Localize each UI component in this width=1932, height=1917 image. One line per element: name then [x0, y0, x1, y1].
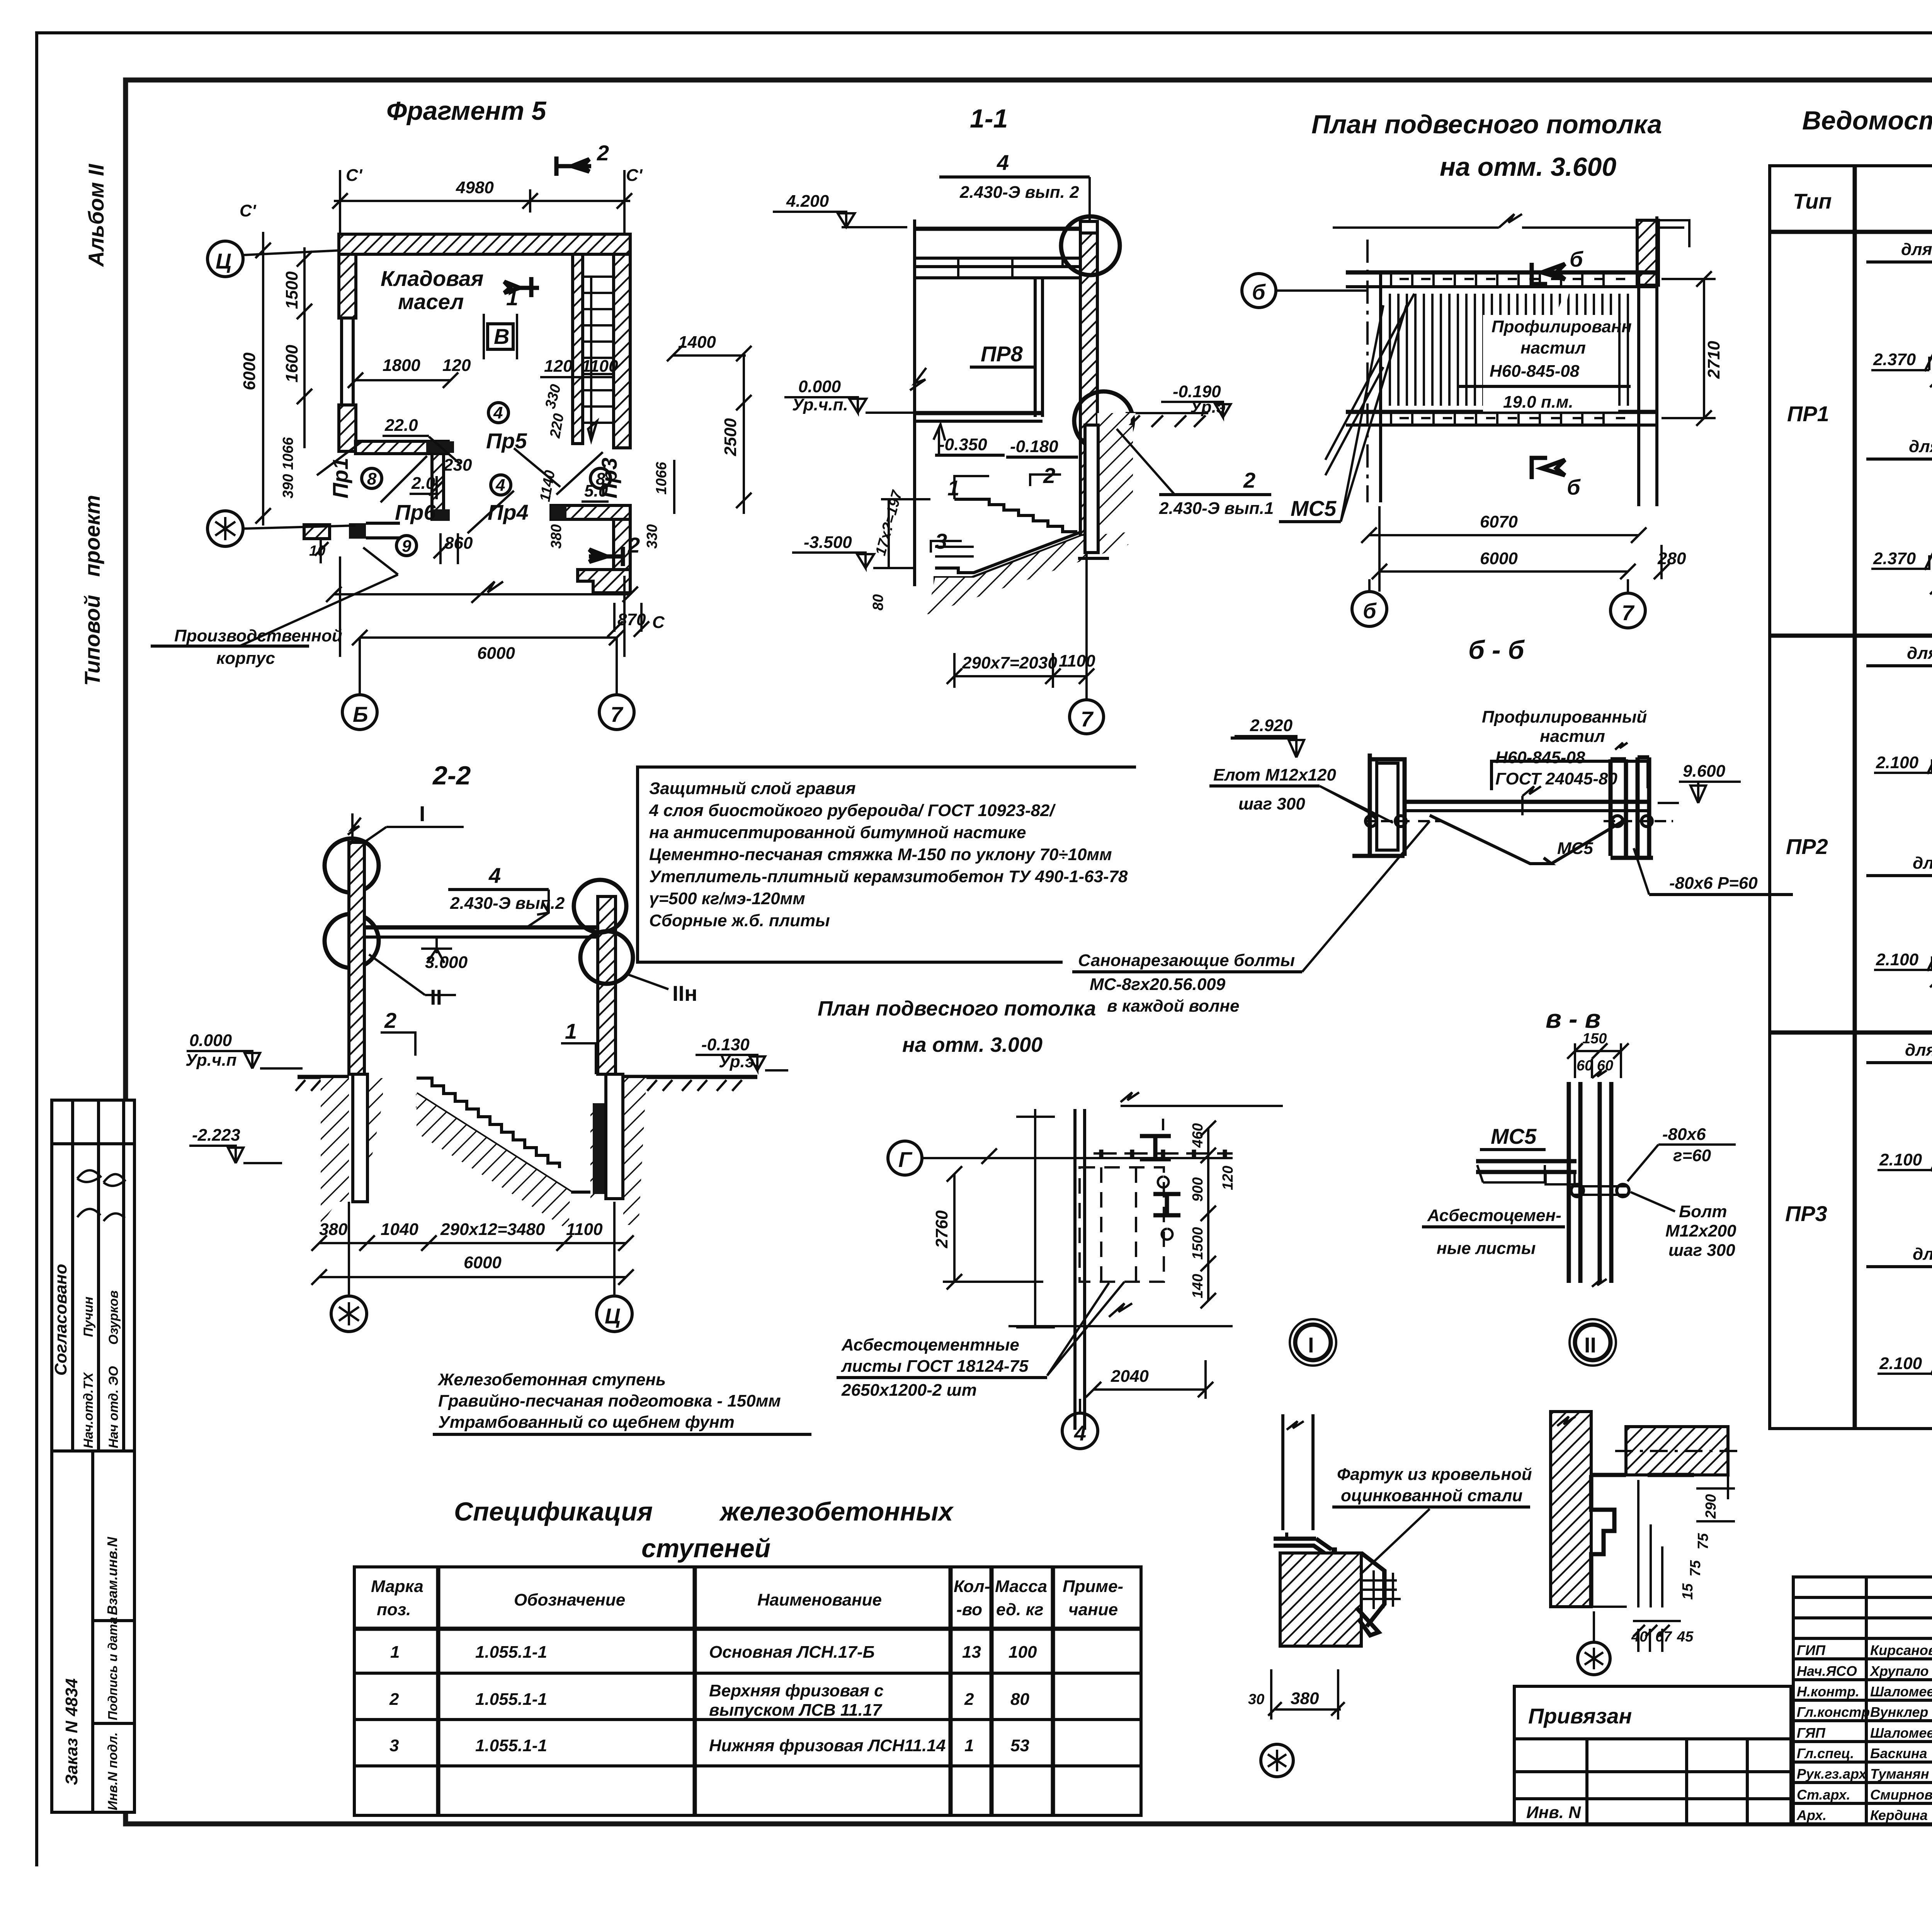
svg-text:80: 80 — [870, 594, 886, 611]
svg-text:7: 7 — [1622, 600, 1635, 625]
svg-text:C': C' — [626, 166, 643, 185]
svg-text:1.055.1-1: 1.055.1-1 — [475, 1643, 547, 1662]
svg-text:-80х6 Р=60: -80х6 Р=60 — [1669, 874, 1758, 893]
svg-text:120: 120 — [442, 356, 471, 375]
svg-text:1600: 1600 — [282, 345, 301, 383]
svg-text:МС5: МС5 — [1291, 496, 1337, 520]
svg-text:230: 230 — [443, 456, 472, 475]
svg-text:9.600: 9.600 — [1683, 762, 1726, 781]
svg-text:поз.: поз. — [377, 1600, 411, 1619]
svg-text:2: 2 — [384, 1008, 396, 1032]
svg-text:4: 4 — [1074, 1421, 1086, 1445]
svg-text:75: 75 — [1695, 1533, 1711, 1550]
svg-text:Гл.констр: Гл.констр — [1797, 1704, 1870, 1720]
svg-text:4: 4 — [493, 403, 503, 422]
svg-text:чание: чание — [1068, 1600, 1118, 1619]
svg-text:ПР8: ПР8 — [981, 342, 1023, 366]
svg-text:Масса: Масса — [995, 1577, 1047, 1596]
svg-text:0.000: 0.000 — [189, 1031, 232, 1050]
svg-text:Баскина: Баскина — [1870, 1745, 1927, 1761]
svg-text:2040: 2040 — [1111, 1367, 1149, 1386]
svg-text:4: 4 — [488, 863, 501, 888]
svg-text:2.100: 2.100 — [1879, 1150, 1922, 1169]
svg-text:45: 45 — [1677, 1629, 1694, 1645]
svg-text:7: 7 — [1081, 707, 1094, 731]
svg-text:Н.контр.: Н.контр. — [1797, 1684, 1859, 1699]
svg-text:Фартук из кровельной: Фартук из кровельной — [1337, 1465, 1532, 1484]
svg-text:10: 10 — [309, 543, 325, 559]
svg-text:выпуском ЛСВ 11.17: выпуском ЛСВ 11.17 — [709, 1701, 883, 1720]
svg-text:Озурков: Озурков — [106, 1290, 121, 1345]
svg-text:Б: Б — [353, 702, 368, 726]
svg-text:1400: 1400 — [678, 333, 716, 352]
svg-text:6070: 6070 — [1480, 512, 1518, 531]
svg-text:C': C' — [240, 201, 257, 220]
svg-text:1: 1 — [390, 1643, 400, 1662]
svg-text:2650х1200-2 шт: 2650х1200-2 шт — [841, 1381, 977, 1400]
svg-text:22.0: 22.0 — [384, 416, 418, 435]
svg-text:1: 1 — [947, 476, 959, 500]
svg-text:290: 290 — [1703, 1494, 1719, 1519]
svg-text:б: б — [1570, 247, 1583, 271]
svg-text:30: 30 — [1248, 1691, 1264, 1708]
svg-text:Ц: Ц — [216, 249, 231, 273]
svg-text:4980: 4980 — [456, 178, 494, 197]
svg-text:ГЯП: ГЯП — [1797, 1725, 1826, 1741]
svg-text:МС-8гх20.56.009: МС-8гх20.56.009 — [1090, 975, 1226, 994]
svg-text:2.100: 2.100 — [1879, 1354, 1922, 1373]
svg-text:оцинкованной стали: оцинкованной стали — [1341, 1486, 1523, 1505]
svg-text:2: 2 — [1043, 463, 1055, 488]
svg-text:для tн=-40°С: для tн=-40°С — [1913, 854, 1932, 873]
svg-text:460: 460 — [1190, 1123, 1206, 1148]
svg-text:6000: 6000 — [1480, 549, 1518, 568]
svg-text:Кладовая: Кладовая — [381, 266, 483, 291]
svg-text:железобетонных: железобетонных — [719, 1497, 954, 1526]
svg-text:Арх.: Арх. — [1796, 1807, 1827, 1823]
svg-text:100: 100 — [1009, 1643, 1037, 1662]
svg-text:Пучин: Пучин — [81, 1297, 96, 1337]
svg-text:2500: 2500 — [721, 418, 740, 456]
svg-text:Нач отд. ЭО: Нач отд. ЭО — [106, 1366, 121, 1448]
svg-text:Утеплитель-плитный керамзитоб: Утеплитель-плитный керамзитобетон ТУ 490… — [649, 867, 1128, 886]
svg-text:Кол-: Кол- — [954, 1577, 990, 1596]
svg-text:Туманян: Туманян — [1870, 1766, 1929, 1782]
svg-text:2.0: 2.0 — [411, 474, 435, 493]
svg-text:-80х6: -80х6 — [1662, 1125, 1706, 1144]
svg-text:Согласовано: Согласовано — [51, 1264, 70, 1376]
svg-text:ПР2: ПР2 — [1786, 834, 1828, 859]
svg-text:М12х200: М12х200 — [1665, 1221, 1736, 1240]
svg-text:1066: 1066 — [653, 462, 670, 495]
svg-text:Защитный слой гравия: Защитный слой гравия — [649, 779, 856, 798]
svg-text:Нач.ЯСО: Нач.ЯСО — [1797, 1663, 1857, 1679]
svg-text:120: 120 — [1220, 1166, 1236, 1190]
svg-text:Ур.э.: Ур.э. — [719, 1052, 759, 1071]
svg-text:Основная ЛСН.17-Б: Основная ЛСН.17-Б — [709, 1643, 875, 1662]
svg-text:для tн=-20°,-30°С: для tн=-20°,-30°С — [1901, 240, 1932, 259]
svg-text:900: 900 — [1190, 1177, 1206, 1202]
svg-text:0.000: 0.000 — [798, 377, 841, 396]
svg-text:настил: настил — [1520, 338, 1586, 357]
svg-text:Н60-845-08: Н60-845-08 — [1490, 362, 1580, 381]
svg-text:Цементно-песчаная стяжка М-1: Цементно-песчаная стяжка М-150 по уклону… — [649, 845, 1112, 864]
svg-text:в - в: в - в — [1546, 1004, 1601, 1034]
svg-text:Рук.гз.арх: Рук.гз.арх — [1797, 1766, 1867, 1782]
svg-text:13: 13 — [962, 1643, 981, 1662]
svg-text:Ст.арх.: Ст.арх. — [1797, 1787, 1850, 1803]
svg-text:1100: 1100 — [582, 357, 618, 376]
svg-text:настил: настил — [1540, 727, 1605, 746]
svg-text:МС5: МС5 — [1491, 1124, 1537, 1148]
svg-text:-0.180: -0.180 — [1010, 437, 1058, 456]
svg-text:1100: 1100 — [1059, 651, 1095, 670]
svg-text:140: 140 — [1190, 1274, 1206, 1298]
svg-text:ступеней: ступеней — [641, 1534, 770, 1563]
svg-text:2760: 2760 — [932, 1210, 951, 1249]
svg-text:4: 4 — [495, 476, 505, 495]
svg-text:Ур.ч.п.: Ур.ч.п. — [792, 395, 848, 414]
svg-text:I: I — [419, 801, 425, 826]
svg-text:б: б — [1567, 475, 1581, 499]
svg-text:2.430-Э вып.1: 2.430-Э вып.1 — [1159, 499, 1274, 518]
svg-text:53: 53 — [1010, 1736, 1029, 1755]
svg-text:Спецификация: Спецификация — [454, 1497, 653, 1526]
svg-text:-0.350: -0.350 — [939, 435, 987, 454]
svg-text:Приме-: Приме- — [1063, 1577, 1123, 1596]
svg-text:Кирсанов: Кирсанов — [1870, 1642, 1932, 1658]
svg-text:Фрагмент 5: Фрагмент 5 — [386, 96, 547, 126]
svg-text:Взам.инв.N: Взам.инв.N — [104, 1536, 120, 1615]
svg-text:1040: 1040 — [381, 1220, 418, 1239]
svg-text:I: I — [1308, 1333, 1314, 1357]
svg-text:C: C — [652, 613, 665, 632]
svg-text:9: 9 — [402, 537, 412, 556]
svg-text:для tн=-20°,-30°С: для tн=-20°,-30°С — [1905, 1041, 1932, 1060]
svg-text:ные листы: ные листы — [1437, 1239, 1536, 1258]
svg-text:380: 380 — [1291, 1689, 1319, 1708]
svg-text:в каждой волне: в каждой волне — [1107, 997, 1239, 1015]
svg-text:для tн=-40°С: для tн=-40°С — [1909, 437, 1932, 456]
svg-text:Елот М12х120: Елот М12х120 — [1213, 765, 1336, 784]
svg-text:Инв.N подл.: Инв.N подл. — [105, 1732, 120, 1810]
svg-text:8: 8 — [367, 469, 377, 488]
svg-text:19.0 п.м.: 19.0 п.м. — [1503, 393, 1573, 412]
svg-text:II: II — [430, 985, 442, 1009]
svg-text:б - б: б - б — [1468, 635, 1525, 665]
svg-text:2: 2 — [964, 1690, 974, 1709]
svg-text:на антисептированной битумной: на антисептированной битумной настике — [649, 823, 1026, 842]
svg-text:Наименование: Наименование — [757, 1590, 882, 1609]
svg-text:ГОСТ 24045-80: ГОСТ 24045-80 — [1495, 769, 1617, 788]
svg-text:на отм. 3.000: на отм. 3.000 — [902, 1033, 1043, 1056]
svg-text:Нач.отд.ТХ: Нач.отд.ТХ — [81, 1372, 96, 1448]
svg-text:для t=-20°,-30°С: для t=-20°,-30°С — [1907, 644, 1932, 663]
svg-text:Г: Г — [898, 1147, 913, 1172]
svg-text:4 слоя биостойкого рубероида: 4 слоя биостойкого рубероида/ ГОСТ 10923… — [649, 801, 1056, 820]
svg-text:Санонарезающие болты: Санонарезающие болты — [1078, 951, 1295, 970]
svg-text:листы ГОСТ 18124-75: листы ГОСТ 18124-75 — [841, 1357, 1029, 1376]
svg-text:5.0: 5.0 — [584, 481, 608, 500]
svg-text:120: 120 — [544, 357, 573, 376]
svg-text:2: 2 — [597, 141, 609, 165]
svg-text:шаг 300: шаг 300 — [1238, 794, 1305, 813]
svg-text:-во: -во — [956, 1600, 982, 1619]
svg-text:1.055.1-1: 1.055.1-1 — [475, 1690, 547, 1709]
svg-text:для tн=-40°С: для tн=-40°С — [1913, 1245, 1932, 1264]
svg-text:Кердина: Кердина — [1870, 1807, 1928, 1823]
svg-text:б: б — [1252, 280, 1266, 304]
svg-text:на отм. 3.600: на отм. 3.600 — [1440, 152, 1616, 182]
svg-text:Шаломеев: Шаломеев — [1870, 1725, 1932, 1741]
svg-text:Типовой проект: Типовой проект — [80, 495, 104, 686]
svg-text:290x12=3480: 290x12=3480 — [440, 1220, 545, 1239]
svg-text:7: 7 — [611, 702, 624, 726]
svg-text:150: 150 — [1582, 1031, 1607, 1047]
svg-text:C': C' — [346, 166, 363, 185]
svg-text:Альбом II: Альбом II — [84, 163, 108, 267]
svg-text:масел: масел — [398, 289, 464, 314]
svg-text:380: 380 — [548, 524, 565, 549]
svg-text:1: 1 — [565, 1019, 577, 1043]
svg-text:Сборные ж.б. плиты: Сборные ж.б. плиты — [649, 911, 830, 930]
svg-text:Производственной: Производственной — [174, 626, 342, 645]
svg-text:-2.223: -2.223 — [192, 1126, 240, 1145]
svg-text:Асбестоцемен-: Асбестоцемен- — [1427, 1206, 1561, 1225]
svg-text:Профилированн: Профилированн — [1492, 317, 1632, 336]
svg-text:2.920: 2.920 — [1250, 716, 1293, 735]
svg-text:Утрамбованный со щебнем фунт: Утрамбованный со щебнем фунт — [438, 1413, 735, 1432]
svg-text:2.370: 2.370 — [1873, 350, 1916, 369]
svg-text:Пр6: Пр6 — [395, 500, 436, 524]
svg-text:Вунклер: Вунклер — [1870, 1704, 1928, 1720]
svg-text:2: 2 — [628, 533, 640, 557]
svg-text:1500: 1500 — [282, 271, 301, 309]
svg-text:Железобетонная ступень: Железобетонная ступень — [437, 1370, 666, 1389]
svg-text:2.100: 2.100 — [1876, 753, 1919, 772]
svg-text:Нижняя фризовая ЛСН11.14: Нижняя фризовая ЛСН11.14 — [709, 1736, 946, 1755]
svg-text:1: 1 — [964, 1736, 974, 1755]
svg-text:2-2: 2-2 — [432, 761, 471, 790]
svg-text:60 60: 60 60 — [1577, 1058, 1613, 1074]
svg-text:330: 330 — [644, 524, 660, 549]
svg-text:Гравийно-песчаная подготовка: Гравийно-песчаная подготовка - 150мм — [438, 1391, 781, 1410]
svg-text:4.200: 4.200 — [786, 192, 829, 211]
svg-text:1: 1 — [506, 286, 518, 310]
svg-text:Ур.ч.п: Ур.ч.п — [185, 1051, 237, 1070]
svg-text:Верхняя фризовая с: Верхняя фризовая с — [709, 1681, 884, 1700]
svg-text:ед. кг: ед. кг — [996, 1600, 1043, 1619]
svg-text:4: 4 — [997, 150, 1009, 175]
svg-text:2: 2 — [1243, 468, 1255, 492]
svg-text:Ур.э: Ур.э — [1190, 398, 1226, 417]
svg-text:6000: 6000 — [477, 644, 515, 663]
svg-text:-0.130: -0.130 — [701, 1035, 750, 1054]
svg-text:II: II — [1584, 1333, 1596, 1357]
svg-text:Гл.спец.: Гл.спец. — [1797, 1745, 1854, 1761]
svg-text:380: 380 — [319, 1220, 348, 1239]
svg-text:г=60: г=60 — [1673, 1146, 1711, 1165]
svg-text:Шаломеев: Шаломеев — [1870, 1684, 1932, 1699]
svg-text:ГИП: ГИП — [1797, 1642, 1826, 1658]
svg-text:Тип: Тип — [1793, 189, 1832, 213]
svg-text:75: 75 — [1687, 1560, 1704, 1577]
svg-text:Пр5: Пр5 — [486, 429, 527, 453]
svg-text:3: 3 — [935, 529, 947, 553]
svg-text:1100: 1100 — [566, 1220, 603, 1239]
svg-text:План подвесного потолка: План подвесного потолка — [1311, 110, 1662, 139]
svg-text:-3.500: -3.500 — [804, 533, 852, 552]
svg-text:390 1066: 390 1066 — [280, 437, 296, 498]
svg-text:Пр4: Пр4 — [488, 500, 529, 524]
svg-text:Ведомость перемычек: Ведомость перемычек — [1802, 106, 1932, 135]
svg-text:ПР1: ПР1 — [1787, 401, 1829, 426]
svg-text:Инв. N: Инв. N — [1526, 1803, 1581, 1822]
svg-text:290x7=2030: 290x7=2030 — [962, 653, 1057, 672]
svg-text:3.000: 3.000 — [425, 953, 468, 972]
svg-text:Подпись и дата: Подпись и дата — [105, 1617, 120, 1721]
svg-text:1.055.1-1: 1.055.1-1 — [475, 1736, 547, 1755]
svg-text:Профилированный: Профилированный — [1482, 708, 1647, 726]
svg-text:Болт: Болт — [1679, 1202, 1727, 1221]
svg-text:1500: 1500 — [1190, 1227, 1206, 1260]
svg-text:15: 15 — [1680, 1583, 1696, 1600]
svg-text:Заказ N 4834: Заказ N 4834 — [62, 1678, 81, 1785]
svg-text:2.430-Э вып. 2: 2.430-Э вып. 2 — [959, 183, 1079, 202]
svg-text:3: 3 — [389, 1736, 399, 1755]
svg-text:корпус: корпус — [216, 649, 275, 668]
svg-text:6000: 6000 — [464, 1253, 502, 1272]
svg-text:IIн: IIн — [672, 981, 697, 1005]
svg-text:шаг 300: шаг 300 — [1668, 1241, 1735, 1260]
svg-text:Смирнова: Смирнова — [1870, 1787, 1932, 1803]
svg-text:Н60-845-08: Н60-845-08 — [1495, 748, 1585, 767]
svg-text:Марка: Марка — [371, 1577, 423, 1596]
svg-text:Обозначение: Обозначение — [514, 1590, 625, 1609]
svg-text:1800: 1800 — [383, 356, 420, 375]
svg-text:Хрупало: Хрупало — [1869, 1663, 1929, 1679]
svg-text:6000: 6000 — [240, 352, 259, 390]
svg-text:Асбестоцементные: Асбестоцементные — [841, 1335, 1019, 1354]
svg-text:2.370: 2.370 — [1873, 549, 1916, 568]
svg-text:γ=500 кг/мэ-120мм: γ=500 кг/мэ-120мм — [649, 889, 805, 908]
svg-text:Привязан: Привязан — [1528, 1704, 1632, 1728]
svg-text:80: 80 — [1010, 1690, 1029, 1709]
svg-text:2: 2 — [389, 1690, 399, 1709]
svg-text:б: б — [1363, 599, 1377, 623]
svg-text:2.100: 2.100 — [1876, 950, 1919, 969]
svg-text:ПР3: ПР3 — [1785, 1201, 1827, 1226]
svg-text:Ц: Ц — [605, 1304, 621, 1328]
svg-text:План подвесного потолка: План подвесного потолка — [818, 997, 1096, 1020]
svg-text:В: В — [494, 324, 509, 349]
svg-text:1-1: 1-1 — [970, 104, 1008, 133]
svg-text:2710: 2710 — [1704, 341, 1723, 379]
